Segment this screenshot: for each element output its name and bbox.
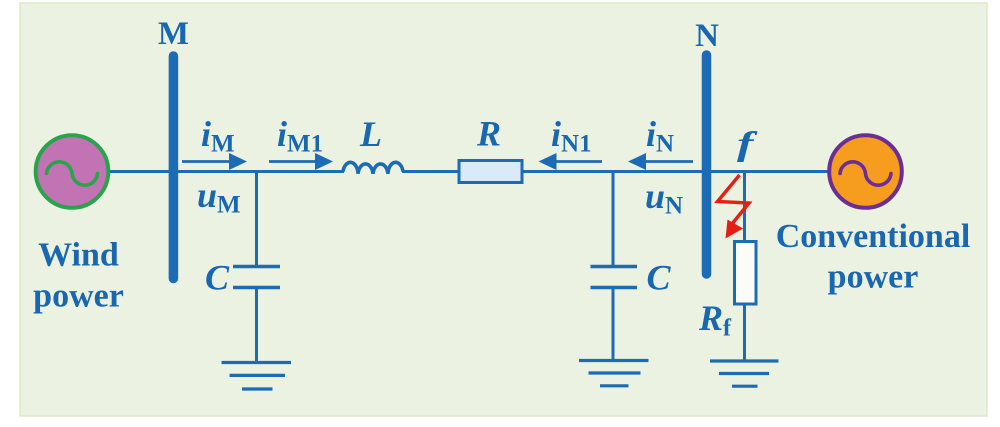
- svg-text:C: C: [646, 258, 671, 298]
- wire: resistor R to node of capacitor C (N side): [521, 170, 613, 173]
- bus N: [702, 55, 712, 274]
- svg-text:N: N: [695, 18, 719, 54]
- resistor Rf: [735, 242, 757, 305]
- svg-text:power: power: [828, 259, 919, 296]
- resistor R: [459, 161, 522, 183]
- wire: capacitor C to ground (N side): [612, 288, 615, 361]
- capacitor C (M side): [233, 267, 280, 288]
- svg-text:C: C: [205, 258, 230, 298]
- ground (M side): [222, 363, 292, 390]
- fault bolt arrow: [718, 175, 750, 239]
- bus M: [169, 56, 179, 279]
- wire: shunt branch M side (junction to capacitor C): [255, 172, 258, 267]
- ground (fault branch): [710, 361, 779, 386]
- wire: wind source to bus M: [106, 170, 173, 173]
- svg-text:M: M: [158, 16, 189, 52]
- wire: inductor L to resistor R: [402, 170, 460, 173]
- svg-text:power: power: [33, 278, 124, 315]
- svg-text:L: L: [359, 114, 382, 154]
- wire: capacitor C to ground (M side): [255, 288, 258, 363]
- wire: fault tap to resistor Rf: [743, 172, 746, 243]
- inductor L: [343, 162, 403, 173]
- generator G1 wind power source: [36, 135, 109, 208]
- svg-text:Wind: Wind: [38, 237, 119, 274]
- wire: capacitor node to bus N: [613, 170, 706, 173]
- generator G2 conventional power source: [829, 135, 902, 208]
- svg-text:R: R: [476, 114, 501, 154]
- wire: shunt branch N side (junction to capacitor C): [612, 172, 615, 267]
- arrow iN1: [539, 153, 603, 170]
- arrow iM: [182, 153, 247, 170]
- wire: resistor Rf to ground: [743, 304, 746, 361]
- capacitor C (N side): [591, 267, 638, 288]
- arrow iN: [628, 153, 693, 170]
- arrow iM1: [269, 153, 333, 170]
- ground (N side): [579, 361, 649, 386]
- wire: bus M to inductor L: [173, 170, 344, 173]
- svg-text:Conventional: Conventional: [776, 218, 971, 255]
- wire: bus N to conventional source: [706, 170, 831, 173]
